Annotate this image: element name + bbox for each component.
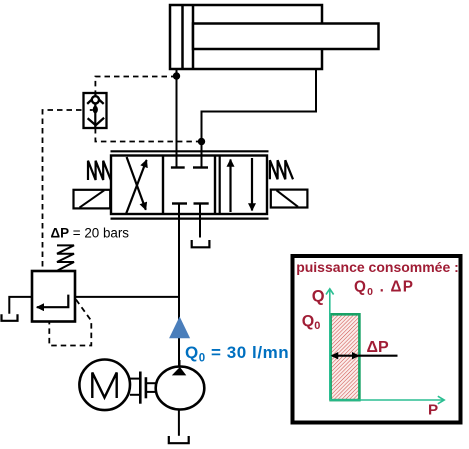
check valve ball xyxy=(92,96,99,103)
valve bottom rail xyxy=(111,218,269,220)
valve cell divider 1 xyxy=(162,156,164,215)
coupling motor side xyxy=(130,372,140,404)
valve right solenoid xyxy=(271,190,308,208)
inset dP double arrow xyxy=(331,352,398,359)
pump tank xyxy=(169,436,189,443)
svg-text:Q0 . ΔP: Q0 . ΔP xyxy=(354,279,414,298)
valve center cell bottom bar 1 xyxy=(172,202,187,204)
relief valve inlet wire xyxy=(75,296,179,298)
check valve seat xyxy=(87,99,104,104)
pump outlet stub xyxy=(179,360,181,367)
check valve arrow V xyxy=(88,118,105,125)
relief valve tank xyxy=(2,314,18,321)
relief valve outlet wire xyxy=(9,297,32,314)
junction node B xyxy=(198,138,205,145)
pump suction wire xyxy=(178,409,180,435)
inset horizontal axis P xyxy=(330,396,444,404)
flow direction blue triangle xyxy=(169,317,190,339)
wire P (valve to pump) xyxy=(178,204,180,368)
wire T (valve to tank) xyxy=(199,204,201,238)
inset graph box xyxy=(293,256,461,423)
wire B (rod-end line cylinder to valve) xyxy=(202,69,317,168)
svg-text:puissance consommée :: puissance consommée : xyxy=(296,259,459,275)
pilot dashed line top (node A to check valve) xyxy=(95,77,176,94)
pump triangle xyxy=(172,367,187,375)
valve left cell crossed arrow 1 xyxy=(126,160,147,214)
valve left spring xyxy=(88,161,111,180)
svg-text:ΔP = 20 bars: ΔP = 20 bars xyxy=(51,226,130,241)
valve center cell bottom bar 2 xyxy=(194,202,209,204)
pilot dashed line left (check valve to relief valve) xyxy=(43,110,92,271)
valve right cell down arrow xyxy=(251,158,253,211)
pump circle xyxy=(156,367,205,410)
valve center cell top bar 1 xyxy=(171,166,185,168)
valve cell divider 2 xyxy=(214,156,216,215)
valve body xyxy=(111,156,267,215)
svg-text:P: P xyxy=(428,402,438,419)
relief valve internal arrow xyxy=(37,295,69,308)
junction node A xyxy=(173,72,180,79)
relief valve drain dashed xyxy=(49,300,91,346)
valve right cell extra line xyxy=(219,156,221,215)
valve left cell crossed arrow 2 xyxy=(127,157,146,210)
check valve orifice dot xyxy=(93,106,98,114)
relief valve spring xyxy=(57,245,74,270)
svg-text:Q: Q xyxy=(312,288,325,306)
cylinder rod xyxy=(193,24,379,50)
wire A (cap-end line cylinder to valve) xyxy=(176,69,178,168)
tank under valve xyxy=(192,240,210,247)
motor circle xyxy=(79,360,130,411)
valve right spring xyxy=(270,160,293,179)
valve center cell top bar 2 xyxy=(193,166,208,168)
cylinder body xyxy=(170,5,322,69)
check/flow valve box xyxy=(84,93,107,128)
inset hatched rectangle xyxy=(331,314,360,400)
motor letter M xyxy=(92,373,116,399)
check valve lower line xyxy=(94,103,96,128)
check valve top stub xyxy=(94,93,96,97)
pilot dashed line bottom (check valve to node B) xyxy=(95,128,201,142)
inset vertical axis Q xyxy=(326,289,334,400)
coupling pump side xyxy=(146,377,156,398)
check valve left tick xyxy=(90,109,93,111)
relief valve box xyxy=(32,271,75,322)
valve top rail xyxy=(111,150,269,152)
valve left solenoid xyxy=(74,190,111,209)
valve right cell up arrow xyxy=(229,160,231,213)
cylinder piston xyxy=(183,5,194,69)
svg-text:ΔP: ΔP xyxy=(367,339,390,356)
